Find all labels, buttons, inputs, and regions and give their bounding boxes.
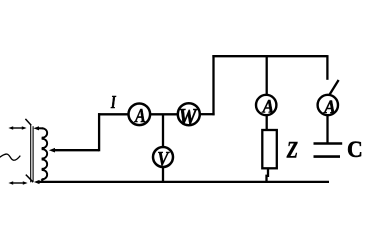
drop to ammeter A2 xyxy=(266,56,268,95)
svg-text:A: A xyxy=(323,96,335,117)
rail right drop to switch xyxy=(326,55,328,80)
riser to top rail xyxy=(212,55,214,115)
ammeter A3 xyxy=(318,95,338,117)
svg-text:A: A xyxy=(262,96,274,117)
switch blade S xyxy=(329,80,338,95)
bottom slider diagonal xyxy=(26,175,33,183)
voltmeter V xyxy=(153,147,173,170)
wire junction to voltmeter xyxy=(162,114,164,146)
wire Z to bus xyxy=(267,168,269,183)
svg-text:C: C xyxy=(347,136,363,162)
winding bottom lead xyxy=(42,179,48,182)
svg-text:A: A xyxy=(134,104,146,126)
svg-text:V: V xyxy=(157,147,170,170)
bottom bus with arrowhead at core xyxy=(34,180,329,184)
top slider double-arrow xyxy=(8,126,26,130)
wattmeter W xyxy=(178,103,200,129)
wire W to riser xyxy=(200,113,215,115)
capacitor C bottom plate xyxy=(314,155,341,158)
svg-text:Z: Z xyxy=(286,137,298,164)
top slider diagonal xyxy=(25,119,31,125)
wire A3 to capacitor xyxy=(326,116,328,144)
svg-text:W: W xyxy=(178,104,198,129)
wire to ammeter A1 xyxy=(98,113,128,115)
ammeter A2 xyxy=(256,95,276,117)
impedance Z xyxy=(262,130,277,168)
wire A2 to Z xyxy=(266,116,268,131)
AC source sine xyxy=(0,154,20,160)
transformer core xyxy=(31,125,33,183)
wire A1 to W xyxy=(151,113,177,115)
capacitor C top plate xyxy=(314,142,343,145)
winding top lead with arrowhead xyxy=(33,126,43,130)
ammeter A1 xyxy=(129,104,151,127)
wire V to bus xyxy=(162,168,164,183)
tap arrow xyxy=(49,148,99,153)
bottom slider double-arrow xyxy=(8,181,27,185)
svg-text:I: I xyxy=(110,93,116,113)
wire tap riser xyxy=(98,113,100,151)
transformer winding L1 xyxy=(42,128,48,179)
top rail xyxy=(212,55,327,57)
